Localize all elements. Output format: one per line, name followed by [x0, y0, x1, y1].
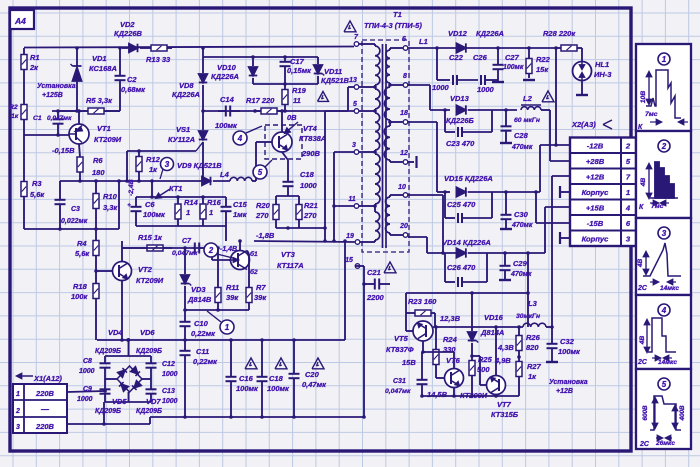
svg-text:2к: 2к	[29, 63, 39, 72]
label R14	[184, 198, 199, 217]
svg-text:C11: C11	[196, 347, 209, 356]
svg-text:4: 4	[625, 204, 631, 213]
resistor R20	[273, 196, 279, 228]
wire R20R21 bottom	[276, 226, 299, 230]
label C28	[511, 131, 533, 151]
svg-text:39к: 39к	[254, 293, 267, 302]
label VD13	[446, 94, 475, 125]
label C25	[447, 200, 476, 209]
svg-text:14,5В: 14,5В	[427, 390, 448, 399]
label T1	[364, 10, 422, 30]
svg-text:R22: R22	[536, 55, 551, 64]
label OB arrow	[285, 113, 298, 133]
svg-text:14мкс: 14мкс	[658, 359, 677, 366]
svg-text:3: 3	[16, 424, 20, 431]
snubber C23	[445, 110, 492, 137]
T1 pin12	[400, 150, 408, 164]
snubber loop C22 C26	[437, 48, 498, 85]
wire pin6 rail	[408, 46, 558, 50]
svg-text:2: 2	[208, 246, 214, 255]
waveform box 2 frame	[636, 131, 691, 218]
svg-text:180: 180	[92, 168, 105, 177]
svg-text:220В: 220В	[35, 422, 55, 431]
label 1000b	[477, 85, 495, 94]
wire pin11 link	[299, 204, 354, 230]
label C31	[385, 378, 411, 395]
svg-text:100мк: 100мк	[236, 384, 259, 393]
svg-text:4,9В: 4,9В	[494, 356, 511, 365]
T1 winding 7-13	[359, 44, 380, 87]
svg-text:Корпус: Корпус	[582, 188, 610, 197]
test point 3	[160, 158, 174, 180]
svg-text:100мк: 100мк	[503, 64, 524, 71]
capacitor C18a	[283, 179, 294, 192]
svg-text:C6: C6	[145, 200, 155, 209]
label R13	[146, 55, 171, 64]
svg-text:VT1: VT1	[97, 124, 111, 133]
label -0.15V	[52, 146, 75, 155]
svg-text:100мк: 100мк	[558, 347, 581, 356]
label R23	[408, 297, 437, 306]
resistor R16	[200, 197, 206, 226]
label R4	[75, 239, 90, 258]
svg-text:R12: R12	[146, 155, 161, 164]
svg-text:+12В: +12В	[586, 173, 605, 182]
T1 pin13	[349, 77, 359, 89]
svg-text:1000: 1000	[432, 83, 450, 92]
label C29	[510, 259, 532, 278]
svg-text:26мкс: 26мкс	[655, 440, 675, 447]
svg-text:220В: 220В	[35, 389, 55, 398]
resistor R2	[21, 104, 27, 135]
label VD8	[172, 81, 200, 99]
T1 dashed box	[362, 40, 409, 252]
capacitor C11	[180, 340, 191, 417]
label 12.3V	[440, 314, 461, 323]
inductor L4	[230, 177, 252, 181]
capacitor C32	[546, 327, 558, 362]
T1 pin7	[354, 34, 359, 46]
label C20	[302, 370, 327, 389]
label 4.9V	[494, 356, 511, 365]
svg-text:2: 2	[15, 408, 20, 415]
label R15	[138, 233, 163, 242]
svg-text:1000: 1000	[477, 85, 495, 94]
svg-text:60 мкГн: 60 мкГн	[514, 117, 540, 124]
wire L2 to row2	[550, 110, 570, 161]
resistor R6	[77, 157, 83, 181]
wire y84 loop	[253, 82, 318, 86]
wire y310	[183, 308, 249, 312]
svg-text:VD12: VD12	[448, 29, 468, 38]
label Ustanovka 12V	[549, 379, 588, 395]
svg-text:VT7: VT7	[497, 400, 512, 409]
label R17	[246, 96, 275, 105]
T1 winding 6-8	[386, 48, 403, 85]
svg-text:A4: A4	[14, 16, 26, 26]
resistor R18	[93, 283, 99, 340]
waveform box 2 number	[658, 140, 670, 152]
transistor VT6	[421, 350, 463, 396]
capacitor C3	[55, 181, 66, 229]
label -2.4V	[128, 179, 135, 196]
label C27	[503, 53, 524, 71]
svg-text:R4: R4	[77, 239, 87, 248]
label KD209B a	[95, 348, 121, 355]
svg-text:КС168А: КС168А	[89, 64, 117, 73]
svg-text:+125В: +125В	[42, 92, 63, 99]
test point 5	[253, 160, 272, 179]
svg-text:L1: L1	[419, 37, 428, 46]
T1 pin19	[346, 233, 360, 244]
svg-text:VT2: VT2	[138, 265, 153, 274]
T1 pin18	[400, 110, 408, 124]
connector X2 label	[571, 120, 612, 129]
svg-text:4,3В: 4,3В	[497, 343, 514, 352]
label C2	[121, 75, 146, 94]
label VT5	[386, 334, 414, 354]
svg-text:R20: R20	[256, 201, 271, 210]
wire L4 to VT4 base	[252, 142, 272, 181]
label 4.3V	[497, 343, 514, 352]
svg-text:6: 6	[402, 36, 406, 43]
T1 winding 18-12	[384, 122, 403, 162]
label VD10	[211, 63, 239, 81]
svg-text:2200: 2200	[366, 293, 385, 302]
svg-text:4В: 4В	[637, 259, 644, 269]
svg-text:VD4: VD4	[108, 328, 123, 337]
svg-text:R6: R6	[93, 156, 103, 165]
svg-text:R16: R16	[207, 198, 222, 207]
transistor VT1	[69, 111, 89, 157]
svg-text:КД521В: КД521В	[321, 76, 350, 85]
label C6	[143, 200, 166, 219]
wire y181	[60, 179, 152, 183]
warning triangle c18	[275, 358, 287, 369]
label R3	[30, 179, 45, 199]
label -1.8V	[256, 231, 275, 240]
resistor R24	[433, 327, 439, 368]
waveform box 4 frame	[636, 295, 691, 369]
diode VD9	[202, 177, 230, 186]
label C15	[233, 200, 248, 219]
T1 winding 3-11	[359, 150, 380, 208]
label 14.5V	[427, 390, 448, 399]
svg-text:1к: 1к	[528, 372, 537, 381]
zener VD3	[181, 248, 192, 316]
label R10	[103, 192, 118, 212]
label C1	[33, 115, 72, 122]
A4 format box	[10, 10, 34, 29]
diode VD8	[199, 57, 208, 111]
resistor R25	[469, 358, 475, 396]
svg-text:X2(A3): X2(A3)	[571, 120, 596, 129]
snubber C25	[445, 192, 492, 223]
svg-text:12: 12	[400, 150, 408, 157]
svg-text:C26: C26	[473, 53, 488, 62]
svg-text:VD8: VD8	[179, 81, 194, 90]
waveform box 1 number	[658, 53, 670, 65]
svg-text:30мкГн: 30мкГн	[516, 313, 540, 320]
svg-text:КТ117А: КТ117А	[277, 261, 304, 270]
X2 row4 gnd	[560, 186, 570, 198]
svg-text:C21: C21	[367, 268, 381, 277]
svg-text:б1: б1	[250, 250, 258, 258]
label VD11	[321, 67, 350, 85]
label C30	[511, 210, 533, 229]
svg-text:C15: C15	[233, 200, 248, 209]
svg-text:2: 2	[661, 142, 667, 151]
svg-text:5: 5	[662, 380, 667, 389]
label C16	[236, 374, 259, 393]
svg-text:1к: 1к	[11, 113, 19, 120]
capacitor C8	[100, 356, 111, 379]
resistor R3	[21, 135, 27, 229]
svg-text:R21: R21	[304, 201, 318, 210]
capacitor C27	[492, 48, 504, 82]
svg-text:820: 820	[526, 343, 539, 352]
svg-text:R28 220к: R28 220к	[543, 29, 576, 38]
svg-text:КД226А: КД226А	[172, 90, 200, 99]
svg-text:C8: C8	[83, 358, 92, 365]
resistor R12	[136, 151, 142, 181]
resistor R10	[93, 181, 99, 229]
transistor VT4	[272, 109, 292, 179]
label VD7	[146, 397, 161, 406]
wire R20R21 top	[276, 192, 299, 196]
svg-text:C22: C22	[449, 53, 464, 62]
waveform 2 labels	[639, 178, 664, 211]
warning triangle L2	[542, 91, 554, 102]
svg-text:C30: C30	[514, 210, 529, 219]
resistor R7	[246, 251, 252, 311]
svg-text:КД226А: КД226А	[211, 72, 239, 81]
svg-text:КТ209И: КТ209И	[94, 135, 122, 144]
wire pin3 link	[332, 152, 354, 243]
label VD1	[89, 54, 117, 73]
contact KT1 arrow	[156, 184, 182, 198]
diode VD13	[443, 105, 517, 114]
label C13	[162, 388, 178, 405]
label VD2	[114, 20, 143, 38]
wire pin18 drop	[408, 122, 450, 192]
capacitor C31	[417, 352, 428, 396]
svg-text:КД226Б: КД226Б	[446, 116, 475, 125]
svg-text:КТ1: КТ1	[169, 184, 182, 193]
resistor R14	[175, 197, 181, 226]
svg-text:КД209Б: КД209Б	[95, 408, 121, 415]
label R16	[207, 198, 222, 217]
svg-text:КД209Б: КД209Б	[136, 348, 162, 355]
svg-text:R18: R18	[73, 282, 88, 291]
wire to pin13	[348, 87, 354, 111]
wire VD15 to row1	[540, 143, 570, 192]
svg-text:К: К	[638, 124, 643, 131]
inductor L3	[523, 323, 554, 329]
resistor R23	[406, 310, 435, 316]
svg-text:C18: C18	[269, 374, 284, 383]
resistor R28	[556, 45, 582, 61]
label KT209I vt6	[460, 391, 488, 400]
svg-text:R5 3,3к: R5 3,3к	[86, 96, 113, 105]
wire reg mid rail	[433, 325, 523, 329]
wire pin5 link	[323, 111, 354, 243]
resistor R27	[516, 355, 522, 396]
svg-text:15В: 15В	[402, 358, 416, 367]
T1 pin15	[345, 257, 360, 268]
wire VT2 base	[94, 262, 112, 283]
svg-text:0,22мк: 0,22мк	[191, 329, 216, 338]
svg-text:T1: T1	[393, 10, 402, 19]
svg-text:10: 10	[398, 184, 406, 191]
svg-text:VD5: VD5	[112, 397, 127, 406]
label C26a	[473, 53, 488, 62]
label L3	[516, 299, 540, 320]
wire rail to row1	[555, 48, 557, 145]
svg-text:VT6: VT6	[446, 356, 461, 365]
svg-text:R15 1к: R15 1к	[138, 233, 163, 242]
svg-text:2С: 2С	[637, 359, 648, 366]
svg-text:-12В: -12В	[587, 142, 604, 151]
svg-text:R1: R1	[30, 53, 40, 62]
svg-text:1000: 1000	[162, 398, 178, 405]
label KD209B b	[136, 348, 162, 355]
label KD209B c	[95, 408, 121, 415]
svg-text:1мк: 1мк	[233, 210, 248, 219]
svg-text:0,47мк: 0,47мк	[302, 380, 327, 389]
svg-text:C27: C27	[505, 53, 520, 62]
svg-text:R26: R26	[526, 333, 541, 342]
T1 pin8	[403, 73, 408, 87]
svg-text:C2: C2	[127, 75, 137, 84]
T1 pin5	[353, 101, 359, 113]
capacitor C7	[193, 243, 201, 254]
svg-text:КТ838А: КТ838А	[299, 134, 326, 143]
label 290V	[301, 149, 321, 158]
label VD4	[108, 328, 123, 337]
label VD6	[140, 328, 155, 337]
svg-text:100мк: 100мк	[143, 210, 166, 219]
svg-text:3: 3	[662, 229, 667, 238]
svg-text:VT4: VT4	[303, 124, 318, 133]
capacitor C18b	[257, 340, 268, 417]
svg-text:1000: 1000	[79, 368, 95, 375]
T1 winding 10-20	[386, 195, 404, 235]
label C8	[79, 358, 95, 375]
capacitor C12	[146, 356, 157, 379]
zener VD1	[71, 48, 82, 111]
svg-text:1: 1	[186, 208, 190, 217]
svg-text:1: 1	[225, 323, 230, 332]
svg-text:11: 11	[348, 196, 355, 203]
label b2	[250, 268, 258, 276]
thyristor VS1	[196, 109, 207, 183]
X2 row7 gnd	[560, 232, 570, 244]
svg-text:VD7: VD7	[146, 397, 161, 406]
T1 pin3	[352, 142, 359, 154]
svg-text:C32: C32	[560, 337, 575, 346]
svg-text:ТПИ-4-3 (ТПИ-5): ТПИ-4-3 (ТПИ-5)	[364, 21, 422, 30]
svg-text:2: 2	[625, 142, 631, 151]
svg-text:C14: C14	[220, 95, 235, 104]
warning triangle c16	[245, 358, 257, 369]
svg-text:VD9 КД521В: VD9 КД521В	[177, 161, 222, 170]
svg-text:R2: R2	[9, 104, 18, 111]
capacitor C28	[500, 110, 512, 143]
label C9	[77, 386, 93, 403]
waveform 4 labels	[637, 336, 677, 366]
svg-text:3,3к: 3,3к	[103, 203, 118, 212]
svg-text:39к: 39к	[226, 293, 239, 302]
label R7	[254, 283, 267, 302]
svg-text:Корпус: Корпус	[582, 235, 610, 244]
svg-text:VD16: VD16	[484, 313, 504, 322]
svg-text:КУ112А: КУ112А	[168, 135, 195, 144]
svg-text:270: 270	[303, 211, 317, 220]
resistor R22	[523, 48, 535, 80]
svg-text:+: +	[127, 203, 131, 209]
svg-text:C26 470: C26 470	[447, 263, 476, 272]
svg-text:5: 5	[353, 101, 357, 108]
label b1	[250, 250, 258, 258]
label R12	[146, 155, 161, 174]
svg-text:2С: 2С	[637, 285, 648, 292]
transistor VT2	[113, 241, 132, 340]
label R25	[477, 355, 493, 374]
svg-text:VD10: VD10	[217, 63, 237, 72]
capacitor C17	[280, 57, 291, 71]
bus -1.8V	[254, 239, 355, 243]
svg-text:C20: C20	[305, 370, 320, 379]
label L2	[514, 94, 540, 124]
bridge wire top	[105, 338, 151, 356]
T1 core	[383, 44, 387, 248]
warning triangle T1	[344, 21, 356, 32]
wire pin8 drop	[408, 85, 450, 110]
svg-text:R14: R14	[184, 198, 199, 207]
label R5	[86, 96, 113, 105]
label KD209B d	[136, 408, 162, 415]
waveform 1 trace	[646, 70, 688, 124]
capacitor C29	[499, 253, 511, 280]
warning triangle R19	[318, 92, 329, 102]
T1 pin11	[348, 196, 358, 208]
svg-text:C12: C12	[162, 361, 175, 368]
svg-text:13: 13	[349, 77, 357, 84]
waveform box 3 number	[658, 227, 670, 239]
svg-text:C9: C9	[83, 386, 92, 393]
connector X2 table	[570, 138, 636, 247]
connector X1 table	[13, 384, 67, 433]
svg-text:1: 1	[16, 391, 20, 398]
svg-text:Д814А: Д814А	[480, 328, 504, 337]
resistor R13	[146, 45, 172, 51]
label VT6	[446, 356, 461, 365]
svg-text:14мкс: 14мкс	[660, 285, 679, 292]
waveform 3 labels	[637, 259, 679, 292]
svg-text:1: 1	[662, 55, 667, 64]
label R2	[9, 104, 19, 120]
svg-text:Д814В: Д814В	[187, 295, 212, 304]
svg-text:4В: 4В	[640, 178, 647, 188]
label VD5	[112, 397, 127, 406]
label VD15	[444, 174, 493, 183]
neon lamp HL1	[573, 62, 592, 96]
svg-text:3: 3	[165, 160, 170, 169]
label R24	[443, 335, 458, 354]
svg-text:R10: R10	[103, 192, 118, 201]
svg-text:100мк: 100мк	[267, 384, 290, 393]
